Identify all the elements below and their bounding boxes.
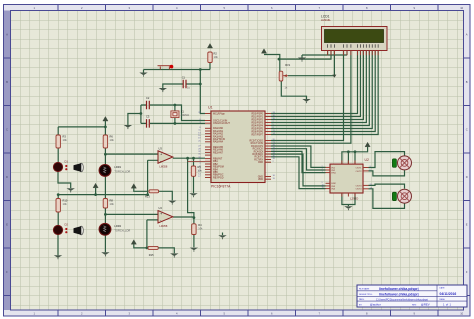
svg-text:10k: 10k bbox=[110, 138, 115, 142]
svg-text:R2: R2 bbox=[214, 52, 218, 56]
svg-text:A: A bbox=[6, 32, 8, 36]
svg-text:C1: C1 bbox=[182, 76, 186, 80]
svg-text:D1: D1 bbox=[65, 160, 69, 164]
svg-text:REV:: REV: bbox=[412, 304, 417, 306]
svg-text:LCD1: LCD1 bbox=[321, 15, 330, 19]
svg-text:PATH:: PATH: bbox=[359, 298, 365, 301]
svg-text:X1: X1 bbox=[181, 110, 185, 114]
svg-text:10k: 10k bbox=[63, 202, 68, 206]
svg-text:VDD: VDD bbox=[258, 178, 263, 181]
svg-text:L293D: L293D bbox=[350, 197, 358, 201]
svg-text:PAGE:: PAGE: bbox=[440, 298, 446, 301]
svg-text:OUT1: OUT1 bbox=[356, 167, 363, 169]
svg-text:linefollower.chika.pdsprj: linefollower.chika.pdsprj bbox=[379, 293, 419, 297]
svg-text:TORCH_LDR: TORCH_LDR bbox=[114, 228, 130, 232]
svg-text:R8: R8 bbox=[110, 199, 114, 203]
svg-text:A: A bbox=[466, 32, 468, 36]
svg-text:C3: C3 bbox=[146, 114, 150, 118]
svg-text:R13: R13 bbox=[145, 195, 150, 199]
svg-text:R6: R6 bbox=[110, 135, 114, 139]
svg-text:10k: 10k bbox=[214, 55, 219, 59]
svg-text:20MHz: 20MHz bbox=[181, 113, 190, 117]
svg-text:10k: 10k bbox=[198, 227, 203, 231]
svg-text:10k: 10k bbox=[110, 202, 115, 206]
svg-text:D2: D2 bbox=[65, 223, 69, 227]
svg-text:DATE:: DATE: bbox=[440, 287, 446, 290]
svg-text:OSC2/CLKOUT: OSC2/CLKOUT bbox=[213, 122, 230, 125]
svg-text:LM358: LM358 bbox=[159, 164, 167, 168]
svg-text:BY:: BY: bbox=[359, 304, 363, 306]
svg-text:C: C bbox=[466, 127, 468, 131]
svg-text:RD7/PSP7: RD7/PSP7 bbox=[251, 133, 263, 136]
svg-text:R15: R15 bbox=[149, 253, 154, 257]
svg-text:10: 10 bbox=[460, 6, 463, 10]
svg-text:RB7/PGD: RB7/PGD bbox=[213, 176, 224, 179]
svg-text:RD0: RD0 bbox=[258, 161, 263, 164]
svg-text:LDR2: LDR2 bbox=[114, 224, 121, 228]
svg-text:PIC16F877A: PIC16F877A bbox=[211, 185, 231, 189]
svg-text:LDR1: LDR1 bbox=[114, 165, 121, 169]
svg-text:FILE NAME:: FILE NAME: bbox=[359, 287, 370, 290]
svg-text:RE2/AN7: RE2/AN7 bbox=[213, 151, 224, 154]
svg-text:E: E bbox=[6, 222, 8, 226]
svg-text:RV1: RV1 bbox=[285, 63, 291, 67]
svg-text:1 of 1: 1 of 1 bbox=[443, 302, 451, 306]
svg-text:OUT2: OUT2 bbox=[356, 171, 363, 173]
svg-text:B: B bbox=[6, 80, 8, 84]
svg-text:DESIGN TITLE:: DESIGN TITLE: bbox=[359, 294, 373, 296]
svg-text:OUT4: OUT4 bbox=[356, 189, 363, 191]
svg-text:U1: U1 bbox=[208, 106, 213, 110]
svg-text:U3: U3 bbox=[159, 146, 163, 150]
svg-text:D: D bbox=[6, 175, 8, 179]
svg-text:04/11/2016: 04/11/2016 bbox=[440, 292, 457, 296]
svg-text:10: 10 bbox=[460, 312, 463, 316]
svg-text:MCLR/Vpp: MCLR/Vpp bbox=[213, 112, 225, 115]
svg-text:LM358: LM358 bbox=[159, 224, 167, 228]
svg-text:U4: U4 bbox=[159, 206, 163, 210]
svg-text:R10: R10 bbox=[63, 199, 68, 203]
svg-text:C2: C2 bbox=[146, 96, 150, 100]
svg-text:C:\Users\PC\Documents\linefoll: C:\Users\PC\Documents\linefollower.chika… bbox=[376, 298, 428, 301]
svg-text:R5: R5 bbox=[198, 165, 202, 169]
svg-text:B: B bbox=[466, 80, 468, 84]
svg-text:R3: R3 bbox=[63, 135, 67, 139]
svg-text:10k: 10k bbox=[198, 169, 203, 173]
svg-text:TORCH_LDR: TORCH_LDR bbox=[114, 169, 130, 173]
svg-text:linefollower.chika.pdsprj: linefollower.chika.pdsprj bbox=[379, 287, 419, 291]
svg-text:R4: R4 bbox=[198, 223, 202, 227]
svg-text:10k: 10k bbox=[63, 138, 68, 142]
svg-text:@REV: @REV bbox=[421, 303, 430, 307]
svg-text:@author: @author bbox=[370, 303, 381, 307]
svg-text:C: C bbox=[6, 127, 8, 131]
svg-text:LM016L: LM016L bbox=[321, 18, 331, 22]
svg-text:E: E bbox=[466, 222, 468, 226]
svg-text:RA5/AN4: RA5/AN4 bbox=[213, 141, 224, 144]
svg-text:U2: U2 bbox=[365, 158, 369, 162]
svg-text:OUT3: OUT3 bbox=[356, 185, 363, 187]
svg-text:D: D bbox=[466, 175, 468, 179]
